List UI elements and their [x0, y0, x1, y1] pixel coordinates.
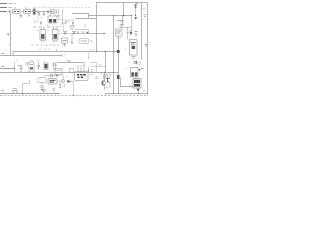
component dark — [117, 75, 120, 79]
pins of U5 — [78, 67, 84, 72]
tick — [56, 49, 58, 52]
filter block FL1 — [13, 9, 21, 14]
ground 3 — [57, 16, 60, 18]
wire main vertical left — [10, 13, 12, 56]
wire stub — [90, 63, 97, 73]
component on bus — [13, 90, 17, 93]
transistor Q1 triangle — [70, 26, 75, 30]
label right of border — [145, 45, 148, 47]
zener D8 — [130, 31, 132, 35]
bridge box D9 — [133, 79, 141, 89]
capacitor C7 — [19, 65, 22, 73]
diode arrow — [56, 75, 58, 77]
wire — [31, 11, 34, 13]
relay contacts dark — [49, 19, 52, 22]
ground — [20, 14, 23, 18]
wire up — [23, 80, 30, 94]
wire interconnects — [62, 20, 74, 31]
wire rail — [35, 11, 52, 13]
junction — [104, 72, 105, 73]
transformer T3 — [53, 30, 59, 41]
wire input stub L — [0, 3, 7, 5]
wire droppers — [50, 14, 55, 16]
box VR1 — [38, 78, 46, 83]
junction — [113, 72, 114, 73]
regulator box U6 — [48, 79, 57, 85]
wire vertical — [62, 9, 64, 20]
label right — [90, 74, 93, 76]
label below — [132, 57, 136, 59]
component cluster — [57, 9, 59, 14]
junction — [14, 68, 15, 69]
LED2 — [62, 75, 64, 80]
wire stub left 2 — [0, 68, 15, 70]
capacitor C3 — [47, 9, 49, 14]
label +5V — [117, 20, 122, 22]
LED1 — [41, 85, 44, 88]
filter block FL2 — [24, 9, 31, 14]
transistor Q2 — [101, 81, 106, 86]
labels — [96, 77, 108, 88]
label row y45 — [31, 44, 59, 46]
junction — [96, 51, 97, 52]
label — [96, 78, 99, 80]
relay box K1 — [130, 40, 138, 56]
label right of opto — [90, 41, 93, 43]
wire top right vertical — [123, 3, 125, 16]
wire — [119, 78, 134, 87]
zener D6 — [59, 85, 61, 88]
marks — [53, 89, 56, 91]
wire with dot — [88, 67, 90, 71]
wire to vertical — [57, 19, 63, 21]
wire and diode — [57, 81, 60, 84]
transformer T1 winding — [33, 9, 35, 15]
bottom bus — [0, 93, 60, 95]
label inside border top — [143, 9, 146, 11]
sprinkled designator labels — [8, 8, 131, 90]
capacitor C6 — [82, 31, 84, 34]
box U8 — [131, 68, 139, 78]
cap branch — [126, 28, 129, 40]
node label ACL — [9, 3, 17, 5]
wire bus B+ — [13, 51, 118, 53]
wire input stub N — [0, 7, 7, 9]
wire to right — [89, 33, 105, 35]
wire — [75, 18, 97, 20]
wire stub left bus — [0, 52, 62, 56]
bottom border dashed — [0, 95, 148, 97]
wire drop — [88, 52, 90, 59]
wire bus gnd — [0, 72, 118, 74]
ground 6 — [121, 24, 124, 26]
capacitor cluster 2 — [72, 21, 74, 26]
label top right — [144, 15, 147, 16]
label — [64, 85, 66, 87]
wires vertical pair — [54, 62, 56, 70]
wire upper mid bus — [57, 63, 84, 67]
ground triangle on bus — [42, 90, 45, 93]
label R — [135, 32, 138, 36]
transformer T2 — [40, 30, 46, 41]
capacitor C8 — [37, 62, 40, 70]
crystal Y1 — [104, 75, 108, 79]
wire to border — [73, 81, 75, 95]
wire — [75, 30, 89, 34]
wire vertical — [14, 62, 16, 73]
node label — [1, 53, 5, 55]
label row mid — [34, 26, 59, 28]
node label — [1, 66, 5, 68]
wire bottom right rail — [106, 94, 148, 96]
capacitor C1 — [38, 12, 40, 17]
small box X1 — [50, 10, 55, 14]
junction — [123, 15, 124, 16]
junction — [131, 15, 132, 16]
label — [26, 63, 30, 65]
box U2 — [62, 38, 68, 43]
label — [34, 21, 39, 23]
small box — [50, 74, 53, 77]
transistor Q4 — [134, 3, 137, 8]
diode D4 — [73, 31, 76, 34]
IC U5 LM-series — [75, 72, 89, 81]
transistor Q3 — [107, 78, 109, 82]
junction — [104, 51, 105, 52]
transistor Q5 — [134, 61, 137, 65]
label — [143, 90, 146, 92]
ground 5 — [41, 88, 44, 91]
label above bus — [90, 49, 95, 51]
ground 2 — [28, 14, 30, 17]
label tick — [67, 60, 71, 62]
capacitor C4 — [40, 21, 42, 25]
ground 4 — [63, 43, 66, 47]
junction — [22, 93, 23, 94]
fuse bead FB1 — [117, 50, 120, 53]
label above bus2 — [39, 48, 51, 50]
node label — [1, 90, 4, 92]
wire vertical long — [141, 3, 143, 61]
wire arrow down — [71, 34, 73, 43]
label under U9 — [117, 37, 122, 39]
junction on border — [73, 95, 74, 96]
label row top — [34, 7, 91, 9]
electrolytic C9 — [44, 63, 48, 69]
top border — [97, 2, 148, 4]
wire vertical — [131, 16, 133, 31]
diode D3 — [64, 31, 67, 34]
wire with label — [91, 66, 106, 68]
small box T4 — [70, 69, 74, 73]
right border — [147, 3, 149, 96]
box U4 — [55, 69, 62, 75]
opto box U3 — [79, 39, 89, 44]
diode D7 — [67, 80, 70, 83]
wire long to right — [88, 15, 132, 17]
node label ACN — [9, 7, 12, 9]
wire — [20, 11, 24, 13]
regulator box U9 — [116, 29, 123, 36]
wire — [120, 27, 132, 29]
wire verticals right mid — [96, 3, 98, 52]
small comp — [120, 25, 123, 27]
capacitor C10 — [121, 15, 124, 24]
wire row — [60, 33, 89, 35]
capacitor C2 — [43, 12, 45, 17]
fuse F1 — [9, 10, 11, 12]
junction — [113, 51, 114, 52]
diode D5 — [87, 31, 89, 34]
connector box J2 — [29, 62, 34, 72]
node label E — [8, 11, 10, 13]
label under caps — [34, 18, 43, 20]
connector label — [7, 34, 10, 35]
wire — [70, 80, 75, 82]
label — [91, 70, 94, 72]
wire L-shape top middle — [72, 14, 89, 19]
capacitor cluster — [62, 21, 64, 26]
wire row w arrow — [44, 75, 59, 77]
relay K2 box — [48, 16, 57, 23]
wire input stub E — [0, 11, 7, 13]
diode D10 — [137, 89, 140, 92]
label — [60, 22, 87, 27]
